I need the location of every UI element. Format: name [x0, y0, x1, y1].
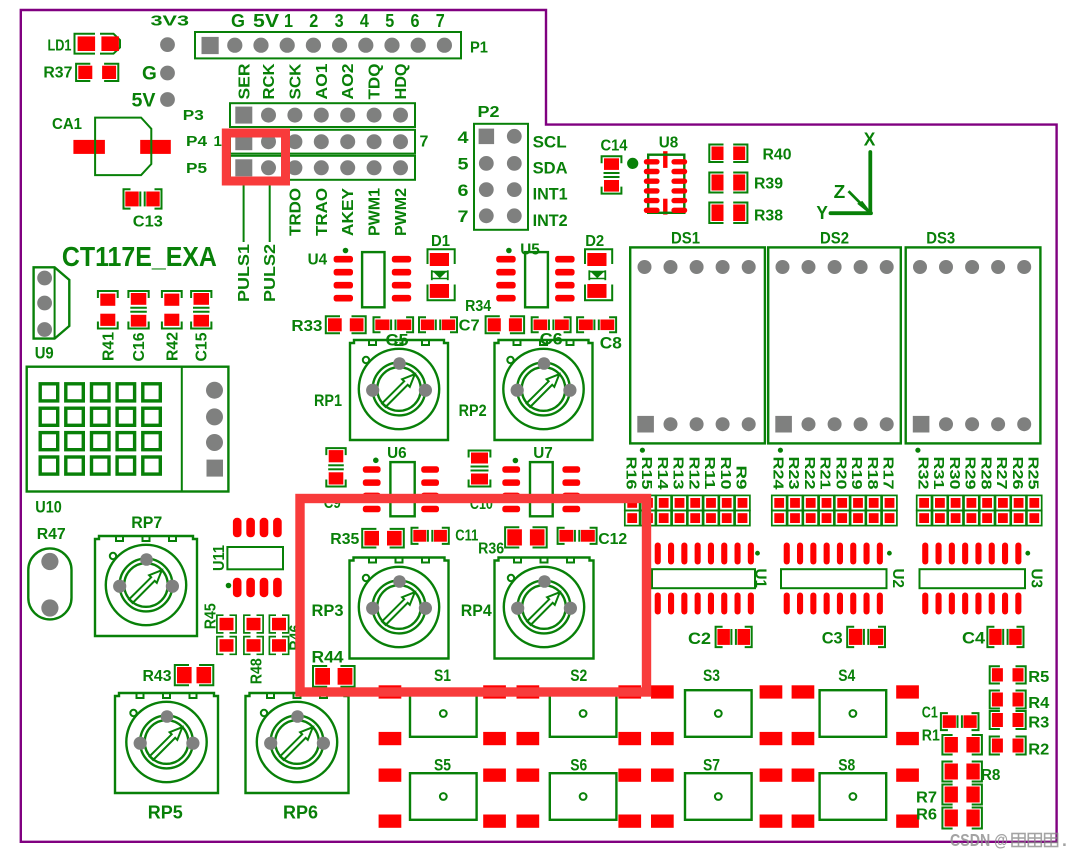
svg-text:AO2: AO2 — [340, 63, 357, 99]
svg-text:U1: U1 — [752, 569, 769, 589]
svg-text:R19: R19 — [848, 457, 865, 490]
svg-text:G: G — [231, 11, 245, 31]
svg-text:C14: C14 — [601, 137, 628, 154]
title CT117E_EXA — [62, 241, 217, 272]
svg-text:U11: U11 — [211, 545, 228, 571]
trimmer RP2 — [459, 340, 593, 440]
display DS1 — [630, 229, 765, 453]
svg-text:S4: S4 — [838, 666, 855, 685]
svg-text:C11: C11 — [455, 528, 478, 545]
resistor R19 — [848, 457, 865, 526]
svg-text:TRAO: TRAO — [314, 188, 331, 236]
display DS2 — [768, 229, 901, 453]
svg-text:R22: R22 — [801, 457, 818, 490]
svg-text:RP7: RP7 — [131, 513, 162, 532]
svg-text:R11: R11 — [701, 457, 718, 490]
trimmer RP1 — [314, 340, 448, 440]
svg-text:TRDO: TRDO — [287, 188, 304, 236]
resistor R27 — [993, 457, 1010, 526]
svg-text:R38: R38 — [754, 208, 783, 225]
wire PULS2 — [262, 180, 279, 302]
svg-text:7: 7 — [420, 134, 429, 151]
svg-text:R25: R25 — [1025, 457, 1042, 490]
svg-text:P3: P3 — [183, 107, 204, 124]
svg-text:C12: C12 — [598, 531, 627, 548]
svg-text:D2: D2 — [585, 233, 604, 250]
svg-text:7: 7 — [436, 11, 445, 31]
resistor R2 — [990, 737, 1050, 759]
svg-text:R40: R40 — [763, 147, 792, 164]
capacitor C4 — [962, 627, 1024, 648]
svg-text:DS3: DS3 — [926, 229, 955, 248]
svg-text:DS1: DS1 — [671, 229, 700, 248]
trimmer RP7 — [95, 513, 197, 636]
svg-text:AO1: AO1 — [314, 63, 331, 99]
svg-text:S2: S2 — [570, 666, 587, 685]
power vias 3V3 G 5V — [132, 12, 190, 111]
header P4 — [186, 130, 429, 154]
svg-text:C16: C16 — [131, 332, 148, 361]
connector fragment — [643, 569, 648, 590]
resistor R42 — [162, 291, 182, 361]
svg-text:R12: R12 — [685, 457, 702, 490]
resistor R47 — [28, 526, 71, 619]
svg-text:DS2: DS2 — [820, 229, 849, 248]
resistor R13 — [670, 457, 687, 526]
svg-text:4: 4 — [360, 11, 369, 31]
resistor network R45 R46 pads — [202, 603, 304, 684]
node AKEY — [340, 188, 357, 236]
svg-text:D1: D1 — [431, 233, 450, 250]
svg-text:U9: U9 — [35, 344, 54, 363]
svg-text:TDQ: TDQ — [367, 64, 384, 100]
svg-text:R33: R33 — [291, 318, 322, 335]
svg-text:SCK: SCK — [287, 63, 304, 99]
resistor R25 — [1025, 457, 1042, 526]
resistor R20 — [832, 457, 849, 526]
svg-text:R30: R30 — [946, 457, 963, 490]
svg-text:S8: S8 — [838, 756, 855, 775]
svg-text:R48: R48 — [248, 658, 265, 684]
svg-text:R9: R9 — [733, 466, 750, 490]
resistor R36 — [478, 527, 547, 557]
svg-text:PWM2: PWM2 — [393, 188, 410, 236]
svg-text:R18: R18 — [864, 457, 881, 490]
resistor R30 — [946, 457, 963, 526]
svg-text:C15: C15 — [194, 332, 211, 361]
switch S6 — [550, 756, 617, 820]
svg-text:R2: R2 — [1028, 742, 1049, 759]
resistor R40 — [709, 145, 791, 164]
node AO2 — [340, 63, 357, 99]
svg-text:P2: P2 — [478, 104, 500, 121]
svg-text:R32: R32 — [914, 457, 931, 490]
capacitor C15 — [191, 291, 211, 362]
svg-text:R10: R10 — [717, 457, 734, 490]
trimmer RP4 — [461, 558, 594, 659]
svg-text:RP6: RP6 — [283, 803, 318, 823]
svg-text:C7: C7 — [459, 318, 480, 335]
svg-text:U5: U5 — [520, 241, 540, 258]
svg-text:CT117E_EXA: CT117E_EXA — [62, 241, 217, 272]
svg-text:C8: C8 — [600, 333, 622, 352]
capacitor C7 — [419, 317, 480, 334]
svg-text:C1: C1 — [922, 704, 938, 721]
svg-text:C2: C2 — [688, 629, 711, 648]
header P2 — [458, 104, 529, 230]
connector U3 — [920, 543, 1045, 615]
svg-text:LD1: LD1 — [48, 38, 72, 55]
node SDA — [533, 159, 568, 178]
connector U9 — [34, 267, 70, 362]
svg-text:R28: R28 — [977, 457, 994, 490]
svg-text:U8: U8 — [659, 135, 679, 152]
svg-text:R29: R29 — [962, 457, 979, 490]
svg-text:R4: R4 — [1028, 695, 1049, 712]
switch S3 — [685, 666, 752, 737]
capacitor C11 — [412, 528, 479, 545]
svg-text:R8: R8 — [981, 767, 1001, 784]
svg-text:PULS1: PULS1 — [236, 244, 253, 302]
svg-text:HDQ: HDQ — [393, 64, 410, 100]
trimmer RP6 — [246, 693, 349, 823]
capacitor C14 — [601, 137, 639, 193]
svg-text:R42: R42 — [164, 332, 181, 361]
svg-text:R15: R15 — [638, 457, 655, 490]
svg-text:SDA: SDA — [533, 159, 568, 178]
svg-text:U10: U10 — [35, 497, 62, 516]
capacitor C13 — [124, 189, 163, 230]
svg-text:SER: SER — [237, 63, 254, 99]
svg-text:CSDN @: CSDN @ — [950, 830, 1008, 850]
IC U5 — [496, 241, 574, 307]
resistor R22 — [801, 457, 818, 526]
svg-text:RP3: RP3 — [312, 601, 344, 620]
svg-text:S7: S7 — [703, 756, 720, 775]
trimmer RP5 — [115, 693, 218, 823]
header P3 — [183, 103, 415, 127]
svg-text:PWM1: PWM1 — [367, 188, 384, 236]
highlight box on RP3/RP4 area — [300, 499, 647, 693]
header P5 — [186, 156, 415, 180]
resistor R31 — [930, 457, 947, 526]
capacitor C16 — [128, 291, 148, 362]
resistor R39 — [709, 173, 783, 193]
svg-text:U3: U3 — [1028, 569, 1045, 589]
node PWM2 — [393, 188, 410, 236]
svg-text:R39: R39 — [754, 176, 783, 193]
capacitor C12 — [558, 528, 628, 548]
resistor R33 — [291, 316, 365, 335]
svg-text:4: 4 — [458, 128, 470, 147]
node TDQ — [367, 64, 384, 100]
IC U6 — [363, 445, 439, 516]
switch pads row1 — [379, 685, 919, 745]
svg-text:AKEY: AKEY — [340, 188, 357, 236]
resistor R21 — [817, 457, 834, 526]
resistor R6 — [916, 807, 982, 829]
svg-text:U4: U4 — [308, 251, 328, 268]
capacitor C8 — [577, 317, 622, 352]
resistor R14 — [654, 457, 671, 526]
svg-text:SCL: SCL — [533, 132, 567, 151]
svg-text:R24: R24 — [769, 457, 786, 491]
diode D1 — [428, 233, 455, 300]
node INT1 — [533, 185, 568, 204]
resistor R18 — [864, 457, 881, 526]
resistor R4 — [990, 691, 1050, 713]
svg-text:R3: R3 — [1028, 715, 1049, 732]
svg-text:R31: R31 — [930, 457, 947, 490]
svg-text:RP2: RP2 — [459, 401, 487, 420]
resistor R26 — [1009, 457, 1026, 526]
svg-text:6: 6 — [458, 181, 469, 200]
resistor R44 — [312, 647, 355, 686]
svg-text:5: 5 — [385, 11, 394, 31]
keypad U10 — [27, 367, 229, 517]
node TRDO — [287, 188, 304, 236]
svg-text:Z: Z — [834, 182, 846, 202]
resistor R43 — [143, 665, 214, 685]
resistor R23 — [785, 457, 802, 526]
svg-text:Y: Y — [816, 203, 828, 223]
capacitor C3 — [822, 627, 885, 648]
svg-text:R13: R13 — [670, 457, 687, 490]
svg-text:C4: C4 — [962, 629, 986, 648]
resistor R34 — [465, 298, 524, 333]
svg-text:5V: 5V — [132, 91, 156, 112]
svg-text:R47: R47 — [37, 526, 66, 543]
node TRAO — [314, 188, 331, 236]
svg-text:S5: S5 — [434, 756, 451, 775]
header P1 — [195, 11, 488, 58]
svg-text:RCK: RCK — [261, 63, 278, 99]
axis marker XYZ — [816, 129, 875, 223]
wire PULS1 — [236, 180, 253, 302]
resistor R16 — [622, 457, 639, 526]
resistor R41 — [98, 291, 118, 361]
node PWM1 — [367, 188, 384, 236]
resistor R11 — [701, 457, 718, 526]
resistor R28 — [977, 457, 994, 526]
svg-text:R20: R20 — [832, 457, 849, 490]
resistor R5 — [990, 666, 1050, 686]
node RCK — [261, 63, 278, 99]
resistor R15 — [638, 457, 655, 526]
svg-text:1: 1 — [284, 11, 293, 31]
svg-text:R34: R34 — [465, 298, 491, 315]
capacitor C2 — [688, 627, 752, 648]
resistor R1 — [922, 727, 982, 754]
LED LD1 — [48, 34, 121, 55]
switch S5 — [410, 756, 477, 820]
svg-text:R41: R41 — [100, 332, 117, 361]
svg-text:INT1: INT1 — [533, 185, 568, 204]
svg-text:2: 2 — [309, 11, 318, 31]
svg-text:R6: R6 — [916, 807, 937, 824]
switch pads row2 — [379, 769, 919, 828]
switch S1 — [410, 666, 477, 737]
svg-text:P1: P1 — [470, 40, 488, 57]
display DS3 — [906, 229, 1041, 453]
svg-text:U7: U7 — [533, 445, 553, 462]
svg-text:3: 3 — [335, 11, 344, 31]
capacitor CA1 — [52, 116, 171, 175]
svg-text:S6: S6 — [570, 756, 587, 775]
capacitor C5 pads — [374, 317, 414, 349]
svg-text:5: 5 — [458, 155, 469, 174]
svg-text:RP4: RP4 — [461, 601, 493, 620]
svg-text:.: . — [1062, 830, 1067, 850]
IC U11 — [211, 518, 283, 597]
svg-text:S3: S3 — [703, 666, 720, 685]
svg-text:6: 6 — [411, 11, 420, 31]
svg-text:RP5: RP5 — [148, 803, 183, 823]
svg-text:S1: S1 — [434, 666, 451, 685]
resistor R17 — [880, 457, 897, 526]
switch S2 — [550, 666, 617, 737]
svg-text:PULS2: PULS2 — [262, 244, 279, 302]
switch S4 — [820, 666, 887, 737]
trimmer RP3 — [312, 558, 449, 659]
resistor R37 — [43, 64, 118, 82]
node SCL — [533, 132, 567, 151]
svg-text:C13: C13 — [133, 213, 163, 230]
resistor R3 — [990, 711, 1050, 732]
svg-text:R44: R44 — [312, 647, 345, 666]
capacitor C1 — [922, 704, 979, 730]
switch S8 — [820, 756, 887, 820]
IC U7 — [502, 445, 580, 516]
resistor R29 — [962, 457, 979, 526]
svg-text:R5: R5 — [1028, 669, 1049, 686]
svg-text:3V3: 3V3 — [151, 12, 190, 29]
svg-text:1: 1 — [214, 133, 222, 150]
svg-text:R7: R7 — [916, 790, 937, 807]
capacitor C6 pads — [532, 317, 571, 348]
capacitor C10 — [469, 451, 493, 514]
svg-text:RP1: RP1 — [314, 391, 342, 410]
connector U1 — [652, 543, 769, 615]
svg-text:R23: R23 — [785, 457, 802, 490]
node INT2 — [533, 211, 568, 230]
svg-text:R37: R37 — [43, 65, 72, 82]
resistor R24 — [769, 457, 786, 526]
resistor R38 — [709, 203, 783, 225]
resistor R32 — [914, 457, 931, 526]
resistor R9 — [733, 466, 750, 526]
connector U2 — [781, 543, 906, 615]
node AO1 — [314, 63, 331, 99]
svg-text:7: 7 — [458, 207, 469, 226]
svg-text:P5: P5 — [186, 160, 207, 177]
node SER — [237, 63, 254, 99]
switch S7 — [685, 756, 752, 820]
svg-text:R1: R1 — [922, 727, 940, 744]
resistor R7 — [916, 785, 982, 807]
svg-text:R36: R36 — [478, 541, 504, 558]
svg-text:X: X — [864, 129, 876, 149]
resistor R35 — [330, 529, 404, 548]
svg-text:R27: R27 — [993, 457, 1010, 490]
svg-text:P4: P4 — [186, 133, 208, 150]
capacitor C9 — [324, 448, 346, 512]
svg-text:R26: R26 — [1009, 457, 1026, 490]
svg-text:R43: R43 — [143, 668, 172, 685]
resistor R12 — [685, 457, 702, 526]
IC U4 — [308, 248, 412, 308]
svg-text:R35: R35 — [330, 531, 359, 548]
svg-text:R14: R14 — [654, 457, 671, 491]
svg-text:U2: U2 — [889, 569, 906, 589]
diode D2 — [585, 233, 612, 300]
svg-text:R21: R21 — [817, 457, 834, 490]
svg-text:5V: 5V — [253, 11, 279, 31]
node SCK — [287, 63, 304, 99]
svg-text:CA1: CA1 — [52, 116, 82, 133]
node HDQ — [393, 64, 410, 100]
svg-text:G: G — [142, 64, 157, 85]
svg-text:U6: U6 — [387, 445, 407, 462]
watermark — [950, 830, 1067, 850]
resistor R10 — [717, 457, 734, 526]
svg-text:R16: R16 — [622, 457, 639, 490]
IC U8 — [644, 135, 687, 215]
svg-text:INT2: INT2 — [533, 211, 568, 230]
highlight box on P4/P5 pins — [226, 133, 285, 181]
svg-text:R17: R17 — [880, 457, 897, 490]
resistor R8 — [942, 762, 1000, 785]
svg-text:C3: C3 — [822, 629, 843, 648]
